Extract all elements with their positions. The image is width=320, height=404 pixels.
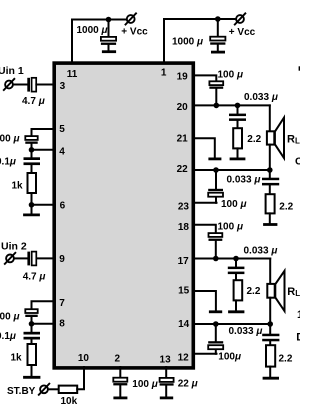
svg-text:18: 18 bbox=[178, 222, 190, 233]
speaker RL2 box bbox=[267, 284, 274, 298]
lead C17 to pin 12 wire bbox=[215, 350, 217, 354]
svg-text:2: 2 bbox=[115, 353, 121, 364]
speaker RL2 horn bbox=[275, 271, 284, 311]
svg-text:10: 10 bbox=[78, 353, 90, 364]
capacitor C7 100u plates bbox=[25, 309, 37, 313]
capacitor C13 100u plates bbox=[208, 189, 223, 191]
svg-text:+ Vcc: + Vcc bbox=[121, 27, 148, 38]
wire input2 to C6 bbox=[14, 257, 27, 259]
svg-text:100 μ: 100 μ bbox=[221, 199, 247, 210]
svg-text:ST.BY: ST.BY bbox=[7, 386, 36, 397]
svg-text:Uin 1: Uin 1 bbox=[0, 65, 24, 77]
lead to C8 bbox=[31, 324, 33, 332]
wire pin 23 bbox=[195, 202, 217, 204]
svg-text:7: 7 bbox=[59, 298, 65, 309]
svg-text:20: 20 bbox=[177, 102, 189, 113]
svg-text:9: 9 bbox=[59, 254, 65, 265]
svg-text:+ Vcc: + Vcc bbox=[229, 27, 256, 38]
svg-text:1000 μ: 1000 μ bbox=[172, 37, 203, 48]
ground below C10 bbox=[165, 386, 167, 397]
node junction dot C17/pin14 bbox=[213, 321, 219, 327]
wire C4 to pin 4 node bbox=[31, 144, 33, 150]
text fragment cut at right edge top bbox=[299, 66, 301, 70]
svg-text:22: 22 bbox=[177, 164, 189, 175]
lead R1 to pin6 node bbox=[31, 193, 33, 205]
wire R3 to pin 10 bbox=[77, 367, 84, 389]
node junction dot Vcc2 bbox=[215, 16, 221, 22]
resistor R7 2.2 bbox=[266, 345, 275, 366]
wire pin 15 stub bbox=[195, 291, 216, 310]
node junction dot pin8 bbox=[29, 321, 35, 327]
ground below R2 bbox=[31, 365, 33, 376]
wire C3 to pin 3 bbox=[36, 84, 54, 86]
resistor R5 2.2 bbox=[266, 194, 275, 213]
connector ST.BY bbox=[40, 385, 48, 393]
svg-text:1: 1 bbox=[161, 68, 167, 79]
svg-text:2.2: 2.2 bbox=[247, 134, 261, 145]
ground below pin 15 bbox=[210, 310, 221, 313]
lead C12 to R4 bbox=[237, 121, 239, 128]
wire C6 to pin 9 bbox=[37, 257, 55, 259]
node junction dot Vcc1 bbox=[106, 17, 112, 23]
wire input1 to C3 bbox=[13, 84, 27, 86]
wire pin 17 bbox=[195, 258, 270, 260]
wire pin11 to Vcc rail bbox=[72, 20, 127, 63]
svg-text:1k: 1k bbox=[11, 353, 23, 364]
capacitor C12 0.033u lead bbox=[237, 105, 239, 113]
lead C13 to pin 23 wire bbox=[215, 197, 217, 203]
node junction dot C15/pin17 bbox=[213, 256, 219, 262]
connector +Vcc 2 bbox=[236, 15, 244, 23]
lead C14 to R5 bbox=[269, 185, 271, 194]
wire pin 12 bbox=[195, 353, 217, 355]
wire pin 7 bbox=[32, 301, 55, 309]
lead C8 to R2 bbox=[31, 340, 33, 345]
resistor R3 10k bbox=[59, 386, 77, 393]
capacitor C1 1000u lead bbox=[108, 20, 110, 37]
wire pin 5 bbox=[32, 129, 55, 136]
capacitor C14 0.033u lead bbox=[269, 170, 271, 178]
node junction dot zobel1/pin20 bbox=[235, 103, 241, 109]
resistor R4 2.2 bbox=[233, 128, 242, 148]
capacitor C17 100u lead bbox=[215, 324, 217, 341]
svg-text:4.7 μ: 4.7 μ bbox=[22, 96, 45, 107]
svg-text:1k: 1k bbox=[12, 181, 24, 192]
resistor R2 1k bbox=[28, 344, 37, 365]
svg-text:RL: RL bbox=[287, 286, 300, 298]
wire pin1 to Vcc rail bbox=[164, 19, 236, 62]
capacitor C3 4.7u plates bbox=[27, 78, 30, 92]
capacitor C2 1000u plates bbox=[210, 37, 225, 41]
ground below pin 21 bbox=[210, 157, 220, 160]
svg-text:6: 6 bbox=[60, 201, 66, 212]
svg-text:12: 12 bbox=[178, 352, 190, 363]
capacitor C10 22u plates bbox=[160, 378, 174, 382]
node junction dot C11/pin20 bbox=[214, 103, 220, 109]
IC U1 body bbox=[54, 63, 193, 368]
ground below C2 bbox=[217, 45, 219, 51]
lead C18 to R7 bbox=[269, 341, 271, 345]
capacitor C9 100u plates bbox=[113, 378, 127, 382]
capacitor C14 0.033u plates bbox=[262, 178, 279, 181]
node junction dot C13/pin22 bbox=[213, 167, 219, 173]
lead to C5 bbox=[31, 150, 33, 158]
wire pin 8 bbox=[32, 323, 55, 325]
capacitor C2 1000u lead bbox=[217, 19, 219, 36]
speaker RL1 horn bbox=[275, 118, 284, 158]
capacitor C8 0.1u plates bbox=[24, 332, 41, 335]
svg-text:13: 13 bbox=[160, 354, 172, 365]
svg-text:1000 μ: 1000 μ bbox=[77, 25, 108, 36]
capacitor C16 0.033u plates bbox=[228, 267, 245, 270]
svg-text:0.1μ: 0.1μ bbox=[0, 157, 16, 168]
wire pin 21 stub bbox=[195, 138, 215, 157]
svg-text:4: 4 bbox=[59, 147, 65, 158]
svg-text:0.033 μ: 0.033 μ bbox=[227, 175, 261, 186]
capacitor C5 0.1u plates bbox=[24, 157, 41, 160]
svg-text:3: 3 bbox=[60, 81, 66, 92]
wire pin 19 bbox=[195, 75, 216, 81]
wire C11 to pin 20 wire bbox=[215, 89, 217, 106]
svg-text:0.033 μ: 0.033 μ bbox=[229, 326, 263, 337]
ground below R6 bbox=[235, 300, 237, 310]
svg-text:23: 23 bbox=[178, 202, 190, 213]
svg-text:8: 8 bbox=[59, 318, 65, 329]
ground below C9 bbox=[119, 385, 121, 396]
node junction dot zobel3/pin17 bbox=[233, 256, 239, 262]
wire pin 14 bbox=[195, 323, 270, 325]
svg-text:D: D bbox=[296, 332, 300, 344]
wire pin 4 bbox=[32, 149, 55, 151]
svg-text:100 μ: 100 μ bbox=[0, 134, 20, 145]
svg-text:C: C bbox=[295, 156, 300, 168]
lead C16 to R6 bbox=[235, 274, 237, 280]
capacitor C12 0.033u plates bbox=[229, 114, 246, 117]
svg-text:21: 21 bbox=[177, 134, 189, 145]
svg-text:RL: RL bbox=[287, 134, 300, 146]
svg-text:0.033 μ: 0.033 μ bbox=[244, 92, 278, 103]
svg-text:Uin 2: Uin 2 bbox=[1, 240, 27, 252]
ground below R5 bbox=[269, 213, 271, 223]
svg-text:2.2: 2.2 bbox=[279, 354, 293, 365]
capacitor C13 100u lead bbox=[215, 170, 217, 189]
resistor R6 2.2 bbox=[234, 280, 243, 300]
svg-text:4.7 μ: 4.7 μ bbox=[23, 272, 46, 283]
wire pin 18 bbox=[195, 225, 216, 233]
svg-text:0.1μ: 0.1μ bbox=[0, 331, 16, 342]
capacitor C6 4.7u plates bbox=[27, 252, 30, 266]
svg-text:100μ: 100μ bbox=[218, 351, 241, 362]
capacitor C18 0.033u lead bbox=[269, 324, 271, 334]
svg-text:14: 14 bbox=[178, 319, 190, 330]
wire pin 22 bbox=[195, 169, 270, 171]
resistor R1 1k bbox=[28, 173, 37, 193]
capacitor C16 0.033u lead bbox=[235, 259, 237, 267]
svg-text:22 μ: 22 μ bbox=[178, 379, 198, 390]
lead C5 to R1 bbox=[31, 165, 33, 173]
node junction dot speaker1/pin22 bbox=[267, 167, 273, 173]
wire C15 to pin 17 wire bbox=[215, 241, 217, 259]
node junction dot pin6 bbox=[29, 202, 35, 208]
capacitor C15 100u plates bbox=[209, 233, 223, 237]
svg-text:100 μ: 100 μ bbox=[218, 221, 244, 232]
svg-text:1: 1 bbox=[297, 309, 300, 321]
capacitor C11 100u plates bbox=[209, 81, 223, 85]
svg-text:15: 15 bbox=[178, 285, 190, 296]
ground below pin6 node bbox=[31, 205, 33, 214]
speaker RL2 wire top bbox=[269, 259, 271, 284]
speaker RL1 wire bottom bbox=[269, 145, 271, 170]
wire connector to R3 bbox=[48, 388, 59, 390]
speaker RL1 wire top bbox=[269, 105, 271, 131]
svg-text:2.2: 2.2 bbox=[279, 201, 293, 212]
wire pin 6 bbox=[32, 204, 55, 206]
speaker RL2 wire bottom bbox=[269, 298, 271, 324]
svg-text:100 μ: 100 μ bbox=[132, 379, 158, 390]
svg-text:11: 11 bbox=[67, 69, 78, 80]
svg-text:100 μ: 100 μ bbox=[0, 312, 20, 323]
capacitor C4 100u plates bbox=[25, 136, 37, 140]
svg-text:10k: 10k bbox=[61, 396, 78, 404]
svg-text:2.2: 2.2 bbox=[247, 286, 261, 297]
wire pin 13 bbox=[165, 367, 167, 378]
svg-text:100 μ: 100 μ bbox=[218, 70, 244, 81]
speaker RL1 box bbox=[267, 131, 274, 144]
node junction dot speaker2/pin14 bbox=[267, 321, 273, 327]
svg-text:17: 17 bbox=[178, 256, 190, 267]
svg-text:0.033 μ: 0.033 μ bbox=[244, 245, 278, 256]
svg-text:5: 5 bbox=[59, 124, 65, 135]
connector input 1 bbox=[5, 81, 13, 89]
connector +Vcc 1 bbox=[127, 15, 135, 23]
wire C7 to pin 8 node bbox=[31, 317, 33, 324]
ground below R4 bbox=[237, 148, 239, 157]
node junction dot pin4 bbox=[29, 147, 35, 153]
wire pin 20 bbox=[195, 104, 270, 106]
svg-text:19: 19 bbox=[177, 71, 189, 82]
ground below R7 bbox=[269, 367, 271, 377]
capacitor C1 1000u plates bbox=[101, 37, 116, 41]
connector input 2 bbox=[6, 255, 14, 263]
ground below C1 bbox=[108, 45, 110, 51]
capacitor C17 100u plates bbox=[208, 341, 223, 343]
capacitor C18 0.033u plates bbox=[262, 334, 279, 337]
wire pin 2 bbox=[119, 367, 121, 377]
